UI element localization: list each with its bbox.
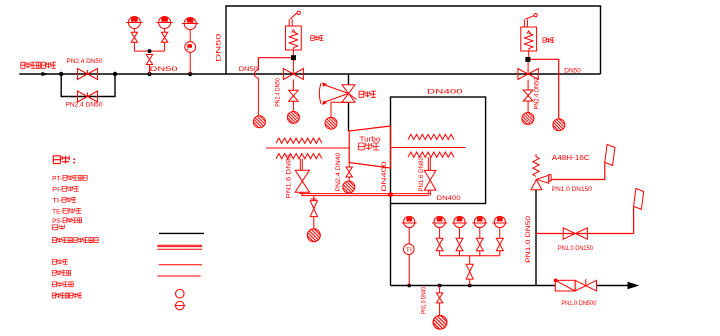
svg-text:PN2.4 DN50: PN2.4 DN50 bbox=[67, 58, 103, 65]
label legend 水管路 bbox=[52, 259, 67, 264]
label legend 排汽管路 bbox=[52, 270, 71, 275]
wire turbine inlet upper bbox=[348, 74, 350, 85]
valve PI2 isolation bbox=[161, 32, 167, 42]
wire PI7 drop bbox=[479, 228, 481, 239]
node junction (469.7,285.5) bbox=[468, 284, 472, 288]
valve drain branch bbox=[310, 201, 317, 217]
wire HX1 mid line bbox=[266, 147, 349, 149]
valve V1 bypass top PN2.4 DN50 bbox=[78, 69, 98, 80]
drain D2 hatched bbox=[287, 111, 299, 123]
wire bypass loop bbox=[61, 74, 115, 97]
svg-text:PN1.0 DN500: PN1.0 DN500 bbox=[561, 300, 596, 307]
label legend 就地仪表盘仪表 bbox=[52, 293, 82, 298]
valve V4 drain bbox=[523, 90, 533, 101]
valve PI6 isolation bbox=[456, 238, 463, 251]
legend local instrument symbol bbox=[176, 289, 185, 298]
wire drain1 from junction bbox=[258, 58, 291, 70]
PRV actuator bow bbox=[319, 83, 348, 104]
safety valve SV2 body bbox=[521, 27, 537, 51]
node junction (115,74) bbox=[113, 72, 117, 76]
SV1 exhaust vent bbox=[289, 11, 300, 26]
svg-text:PN2.4 DN50: PN2.4 DN50 bbox=[274, 78, 281, 107]
valve V3 drain bbox=[289, 90, 299, 101]
wire box left edge extension bbox=[390, 204, 392, 286]
valve PI1 isolation bbox=[131, 32, 137, 42]
valve HX1 big bbox=[295, 170, 309, 192]
node SV2 junction square bbox=[525, 57, 530, 62]
wire gauge bus bbox=[134, 50, 164, 52]
valve PI7 isolation bbox=[476, 238, 483, 251]
wire relief riser bbox=[535, 190, 537, 286]
wire V4 drain drop bbox=[527, 101, 529, 113]
wire PI3 drop bbox=[189, 30, 191, 42]
node junction (439.6,285.5) bbox=[438, 284, 442, 288]
wire HX2 double drop bbox=[428, 157, 430, 170]
legend water line symbol bbox=[159, 264, 202, 266]
arrow bottom exhaust bbox=[628, 282, 640, 290]
safety valve SV1 body bbox=[286, 26, 302, 50]
valve V4 main stop bbox=[518, 69, 538, 80]
turbine Turbo bbox=[349, 126, 390, 168]
gauge PI6 bbox=[452, 216, 467, 227]
svg-text:PN1.0 DN50: PN1.0 DN50 bbox=[525, 216, 532, 263]
node gauge bus junction bbox=[148, 49, 152, 53]
svg-text:A48H-16C: A48H-16C bbox=[552, 153, 591, 162]
label 调节阀 bbox=[359, 91, 376, 97]
valve V3 main stop PN2.4 DN50 bbox=[283, 69, 303, 80]
valve manifold root bbox=[466, 264, 473, 279]
wire PI2 drop bbox=[164, 29, 166, 33]
svg-text:PS-: PS- bbox=[52, 218, 62, 225]
instrument TI circle bbox=[404, 244, 415, 255]
gauge PI8 bbox=[492, 216, 507, 227]
wire drain1 lower bbox=[257, 78, 259, 116]
gauge PI3 bbox=[182, 18, 198, 30]
svg-text:PN1.0 DN150: PN1.0 DN150 bbox=[552, 186, 592, 193]
svg-text:PI-: PI- bbox=[52, 187, 62, 194]
wire turbine drain bbox=[348, 163, 350, 168]
label legend PI-压力表 bbox=[52, 186, 79, 193]
wire gauge manifold bbox=[440, 255, 500, 257]
wire V3 drop bbox=[292, 80, 294, 91]
node junction (61.2,74) bbox=[59, 72, 63, 76]
wire HX2 valve outlet bbox=[428, 190, 430, 196]
svg-text:DN50: DN50 bbox=[239, 66, 259, 73]
wire PI1 drop bbox=[133, 29, 135, 33]
svg-text:DN50: DN50 bbox=[150, 66, 179, 73]
wire main steam line bbox=[19, 73, 600, 75]
drain D5 hatched bbox=[307, 229, 320, 242]
label 汽轮机 bbox=[358, 143, 379, 150]
wire drain branch2 bbox=[313, 217, 315, 229]
svg-text:DN400: DN400 bbox=[381, 161, 388, 191]
wire relief outlet bbox=[551, 162, 605, 180]
svg-text:PN2.4 DN50: PN2.4 DN50 bbox=[66, 101, 103, 108]
svg-text:PN1.6 DN80: PN1.6 DN80 bbox=[285, 154, 292, 198]
label legend PT-压力变送器 bbox=[52, 175, 87, 182]
wire big enclosure box top bbox=[226, 6, 601, 74]
wire condenser box bbox=[391, 97, 486, 204]
valve bottom drain bbox=[436, 293, 442, 303]
wire turbine drain2 bbox=[348, 177, 350, 181]
relief angle valve A48H-16C bbox=[531, 175, 551, 190]
wire PI4 drop bbox=[408, 228, 410, 244]
legend mixture double line symbol bbox=[157, 245, 202, 249]
wire V3 drain drop bbox=[292, 101, 294, 111]
wire PS drop bbox=[189, 52, 191, 74]
vent flag F1 bbox=[605, 144, 615, 165]
wire PI6 drop bbox=[459, 228, 461, 239]
drain D3 hatched bbox=[325, 117, 337, 129]
instrument PS pressure switch circle bbox=[185, 42, 196, 53]
wire blowoff line bbox=[536, 206, 634, 234]
wire PI7 drop2 bbox=[479, 251, 481, 256]
svg-text:PN1.0 DN150: PN1.0 DN150 bbox=[558, 245, 593, 252]
svg-text:PN1.6 DN80: PN1.6 DN80 bbox=[418, 157, 425, 192]
wire turbine inlet lower bbox=[348, 102, 350, 131]
gauge PI1 bbox=[126, 17, 142, 29]
label legend TI-温度计 bbox=[52, 197, 76, 204]
wire PI6 drop2 bbox=[459, 251, 461, 256]
svg-text:DN50: DN50 bbox=[564, 67, 581, 74]
strainer/expansion joint bbox=[554, 279, 575, 291]
wire TI drop bbox=[408, 255, 410, 286]
valve gauge root bbox=[146, 55, 152, 65]
heater HX2 top coil bbox=[408, 134, 454, 139]
svg-text:PN2.4 DN40: PN2.4 DN40 bbox=[335, 152, 342, 191]
label SV1 安全阀 bbox=[311, 36, 324, 41]
node junction (409.2,285.5) bbox=[407, 284, 411, 288]
drain D6 hatched bbox=[433, 315, 447, 329]
wire HX1 double drop bbox=[300, 159, 302, 171]
gauge PI7 bbox=[472, 216, 487, 227]
wire V4 drop bbox=[527, 80, 529, 91]
valve V5 blowoff PN1.0 DN150 bbox=[563, 228, 587, 239]
svg-text:DN400: DN400 bbox=[427, 89, 463, 96]
SV2 exhaust vent bbox=[524, 14, 537, 27]
label SV2 安全阀 bbox=[543, 38, 554, 43]
drain D8 hatched bbox=[553, 119, 565, 131]
wire SV1 stem upper bbox=[292, 50, 294, 55]
heater HX1 top coil bbox=[276, 138, 322, 143]
legend exhaust line symbol bbox=[157, 275, 200, 277]
label legend 蒸汽 bbox=[52, 225, 64, 230]
label inlet steam text bbox=[21, 62, 56, 68]
wire manifold drop2 bbox=[469, 279, 471, 285]
wire gauge root drop bbox=[149, 65, 151, 75]
valve HX2 big bbox=[424, 170, 436, 190]
wire PI5 drop2 bbox=[439, 251, 441, 256]
label legend title 说明 bbox=[53, 156, 69, 164]
heater HX2 bottom coil bbox=[408, 152, 454, 157]
svg-text:PN1.0 DN40: PN1.0 DN40 bbox=[421, 287, 428, 314]
svg-text:TI-: TI- bbox=[52, 198, 62, 205]
valve PI5 isolation bbox=[436, 238, 443, 251]
label legend 蒸汽空气混合管路 bbox=[52, 238, 98, 243]
gauge PI4 bbox=[402, 216, 417, 227]
wire PI5 drop bbox=[439, 228, 441, 239]
flow arrow on main line bbox=[42, 72, 49, 76]
wire PI8 drop2 bbox=[499, 251, 501, 256]
node SV1 junction square bbox=[291, 55, 296, 60]
label legend 就地仪表 bbox=[52, 282, 73, 287]
drain D4 hatched bbox=[343, 181, 355, 193]
wire HX2 mid line bbox=[391, 147, 466, 149]
svg-text:TI: TI bbox=[406, 248, 413, 254]
wire mixture double line bbox=[299, 192, 431, 195]
valve PI8 isolation bbox=[496, 238, 503, 251]
node junction (149.5,74) bbox=[147, 72, 151, 76]
wire bottom exhaust line bbox=[391, 285, 629, 287]
control valve PRV bbox=[342, 85, 357, 102]
gauge PI2 bbox=[156, 17, 172, 29]
drain D1 hatched bbox=[253, 116, 265, 128]
wire SV1 stem lower bbox=[292, 60, 294, 74]
valve V6 exhaust PN1.0 DN500 bbox=[575, 279, 596, 291]
wire PI2 drop2 bbox=[164, 42, 166, 51]
vent flag F2 bbox=[634, 188, 644, 209]
wire PI8 drop bbox=[499, 228, 501, 239]
svg-text:Turbo: Turbo bbox=[360, 136, 381, 143]
wire bottom drain branch bbox=[439, 286, 441, 293]
svg-text:DN50: DN50 bbox=[216, 33, 223, 61]
wire manifold drop bbox=[469, 256, 471, 264]
wire PRV drain bbox=[331, 102, 349, 117]
valve V2 bypass bottom bbox=[78, 91, 98, 102]
wire drain1 hop over main bbox=[254, 70, 258, 78]
drain D7 hatched bbox=[522, 113, 534, 125]
wire PI1 drop2 bbox=[133, 42, 135, 51]
label legend TE-热电阻 bbox=[52, 208, 81, 215]
wire drain branch bbox=[311, 196, 317, 201]
gauge PI5 bbox=[432, 216, 447, 227]
wire bottom drain2 bbox=[439, 303, 441, 315]
wire drain2 from junction bbox=[530, 59, 558, 119]
wire SV2 stem lower bbox=[527, 62, 529, 74]
svg-text:PT-: PT- bbox=[52, 176, 62, 183]
heater HX1 bottom coil bbox=[276, 154, 322, 159]
legend steam line symbol bbox=[159, 232, 204, 234]
node mixture/box junction bbox=[388, 192, 393, 197]
node junction (190.2,74) bbox=[188, 72, 192, 76]
svg-text:PN2.4 DN50: PN2.4 DN50 bbox=[533, 77, 540, 109]
legend panel instrument symbol bbox=[175, 301, 186, 310]
label legend PS-压力开关 bbox=[52, 218, 81, 225]
relief valve spring bbox=[533, 154, 539, 176]
svg-text:TE-: TE- bbox=[52, 209, 62, 216]
wire SV2 stem upper bbox=[528, 51, 530, 57]
valve turbine drain bbox=[346, 167, 352, 177]
svg-text:DN400: DN400 bbox=[437, 195, 461, 202]
